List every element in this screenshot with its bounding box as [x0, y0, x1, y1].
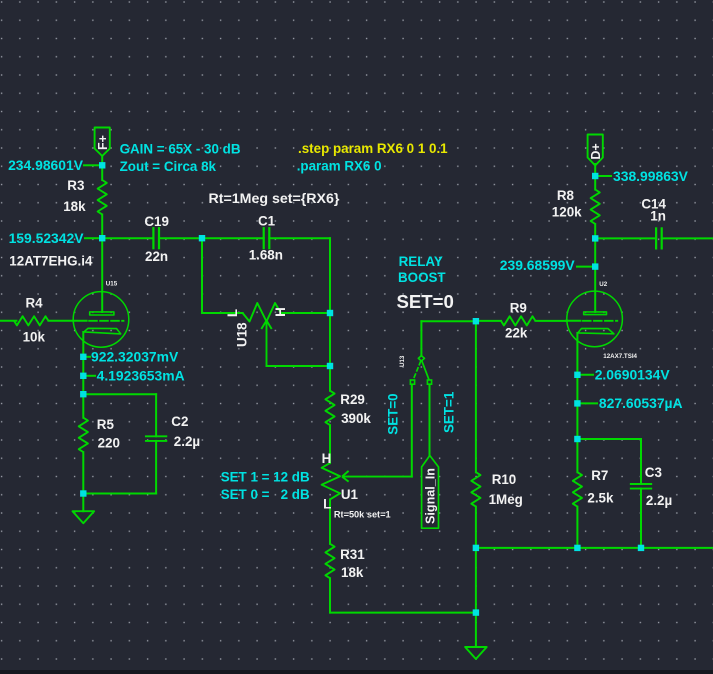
svg-text:SET=0: SET=0 — [386, 393, 401, 434]
svg-text:2.2µ: 2.2µ — [646, 493, 672, 508]
wire down to 239V node — [594, 238, 596, 266]
label 234.98601V — [8, 157, 98, 173]
svg-text:1.68n: 1.68n — [249, 248, 283, 263]
label 2.0690134V — [577, 367, 670, 383]
flag D+ — [588, 135, 603, 166]
node ground right — [473, 609, 479, 615]
svg-text:U18: U18 — [235, 322, 250, 347]
potentiometer U18 — [225, 303, 330, 366]
wire wiper up to switch — [411, 385, 413, 477]
svg-text:390k: 390k — [341, 411, 371, 426]
wire to ground right — [475, 613, 477, 647]
node 827uA — [574, 400, 580, 406]
node rail R7 — [574, 545, 580, 551]
svg-text:2.5k: 2.5k — [587, 491, 614, 506]
node 2.069V — [574, 372, 580, 378]
node R5-C2 branch — [80, 391, 86, 397]
svg-text:R29: R29 — [340, 392, 365, 407]
text SET 0 = 2 dB — [221, 487, 310, 502]
svg-text:Rt=50k set=1: Rt=50k set=1 — [334, 510, 391, 520]
capacitor C14 — [641, 197, 666, 249]
svg-text:R9: R9 — [510, 301, 527, 316]
wire R3 bottom — [101, 215, 103, 239]
svg-text:R4: R4 — [26, 296, 44, 311]
wire node to C19 — [102, 237, 153, 239]
svg-text:R3: R3 — [67, 178, 84, 193]
ground left — [73, 511, 95, 523]
svg-text:SET=1: SET=1 — [442, 391, 457, 433]
label 827.60537uA — [577, 395, 682, 411]
svg-text:F+: F+ — [96, 135, 110, 150]
svg-text:120k: 120k — [552, 205, 582, 220]
wire to R7 branch — [576, 403, 578, 439]
svg-text:.param RX6 0: .param RX6 0 — [297, 158, 382, 173]
svg-text:10k: 10k — [23, 330, 46, 345]
node rail R10 — [473, 545, 479, 551]
svg-text:827.60537µA: 827.60537µA — [599, 395, 683, 411]
svg-text:C3: C3 — [645, 465, 662, 480]
potentiometer U1 — [322, 451, 412, 544]
svg-text:U13: U13 — [399, 355, 406, 367]
svg-text:12AX7.TSI4: 12AX7.TSI4 — [603, 353, 637, 360]
wire C2 bottom to node — [83, 493, 156, 495]
svg-text:1Meg: 1Meg — [489, 492, 523, 507]
svg-text:U2: U2 — [599, 281, 607, 288]
text SET=0 rotated — [386, 393, 401, 434]
resistor R5 — [79, 394, 120, 493]
wire node down to U18 L — [202, 238, 243, 313]
text SET=1 rotated — [442, 391, 457, 433]
ground right — [465, 647, 487, 659]
wire R31 bottom — [330, 578, 476, 612]
svg-text:H: H — [273, 307, 288, 317]
resistor R9 — [476, 301, 567, 341]
resistor R3 — [63, 178, 107, 214]
wire cathode U2 — [576, 333, 578, 375]
resistor R31 — [325, 544, 365, 580]
wire R8 top — [594, 176, 596, 190]
wire bottom rail — [476, 547, 713, 549]
svg-text:BOOST: BOOST — [398, 270, 446, 285]
svg-text:H: H — [322, 451, 332, 466]
svg-text:22n: 22n — [145, 249, 168, 264]
svg-text:159.52342V: 159.52342V — [9, 230, 85, 246]
text GAIN — [120, 142, 241, 157]
flag Signal_In — [422, 456, 439, 529]
svg-text:R31: R31 — [340, 547, 365, 562]
directive .param — [297, 158, 382, 173]
svg-text:RELAY: RELAY — [399, 254, 443, 269]
svg-text:R5: R5 — [97, 417, 115, 432]
wire node to C14 — [595, 237, 656, 239]
wire branch to C2 top — [83, 394, 156, 436]
svg-text:338.99863V: 338.99863V — [613, 168, 689, 184]
svg-text:SET 1 = 12 dB: SET 1 = 12 dB — [221, 470, 310, 485]
text SET 1 = 12 dB — [221, 470, 310, 485]
flag F+ — [95, 128, 110, 157]
wire plate U15 — [101, 238, 103, 312]
wire cathode segment 2 — [576, 375, 578, 404]
svg-text:L: L — [225, 309, 240, 317]
wire down to R29 — [329, 366, 331, 391]
label 338.99863V — [595, 168, 688, 184]
svg-text:U1: U1 — [341, 487, 359, 502]
capacitor C1 — [249, 214, 283, 263]
text Rt=1Meg — [209, 191, 340, 207]
resistor R29 — [325, 391, 371, 426]
text SET=0 big — [397, 291, 454, 312]
wire switch to Signal_In — [429, 384, 431, 455]
wire C1 to corner — [269, 237, 330, 239]
svg-text:922.32037mV: 922.32037mV — [91, 349, 179, 365]
text RELAY — [399, 254, 443, 269]
wire R10 top — [475, 321, 477, 472]
resistor R10 — [471, 472, 523, 507]
directive .step — [298, 141, 448, 156]
wire pot H down — [329, 313, 331, 366]
wire R29 to U1 — [329, 425, 331, 463]
svg-text:.step param RX6 0 1 0.1: .step param RX6 0 1 0.1 — [298, 141, 448, 156]
svg-text:1n: 1n — [650, 209, 666, 224]
label 159.52342V — [9, 230, 98, 246]
wire corner down to pot H — [329, 238, 331, 313]
node 239V — [592, 263, 598, 269]
label 239.68599V — [500, 257, 593, 273]
svg-text:SET=0: SET=0 — [397, 291, 454, 312]
svg-text:GAIN = 65X - 30 dB: GAIN = 65X - 30 dB — [120, 142, 241, 157]
wire switch top rail — [421, 320, 476, 322]
svg-text:234.98601V: 234.98601V — [8, 157, 84, 173]
wire C19 to node — [159, 237, 202, 239]
node R7-C3 branch — [574, 436, 580, 442]
svg-text:U15: U15 — [106, 281, 118, 288]
wire R10 bottom — [475, 507, 477, 548]
node U18 wiper — [327, 363, 333, 369]
svg-text:22k: 22k — [505, 325, 528, 340]
wire R3 top — [101, 165, 103, 180]
svg-text:D+: D+ — [589, 143, 603, 159]
svg-text:239.68599V: 239.68599V — [500, 257, 576, 273]
wire cathode U15 — [82, 332, 84, 357]
node ground left — [80, 490, 86, 496]
svg-text:4.1923653mA: 4.1923653mA — [97, 368, 185, 384]
wire node to C1 — [202, 237, 264, 239]
svg-text:C2: C2 — [171, 414, 188, 429]
resistor R4 — [0, 296, 87, 345]
wire cathode segment — [82, 357, 84, 376]
svg-text:Rt=1Meg set={RX6}: Rt=1Meg set={RX6} — [209, 191, 340, 207]
text BOOST — [398, 270, 446, 285]
capacitor C3 — [631, 465, 672, 548]
svg-text:Zout = Circa 8k: Zout = Circa 8k — [120, 159, 217, 174]
wire C14 right — [662, 237, 713, 239]
switch U13 — [399, 321, 432, 384]
node 234V — [99, 162, 105, 168]
wire F+ to node — [101, 157, 103, 165]
wire R8 bottom — [594, 224, 596, 238]
svg-text:220: 220 — [98, 436, 120, 451]
wire R9 to U2 grid — [566, 320, 580, 322]
wire plate U2 — [594, 267, 596, 312]
node U18 H — [327, 310, 333, 316]
svg-text:L: L — [323, 497, 331, 512]
wire to R5 branch — [82, 376, 84, 394]
svg-text:SET 0 = 2 dB: SET 0 = 2 dB — [221, 487, 310, 502]
svg-text:2.0690134V: 2.0690134V — [595, 367, 671, 383]
svg-text:Signal_In: Signal_In — [424, 468, 438, 524]
svg-text:18k: 18k — [63, 199, 86, 214]
wire D+ to node — [594, 164, 596, 176]
resistor R7 — [573, 439, 614, 548]
node R8-C14 — [592, 235, 598, 241]
svg-text:R8: R8 — [557, 188, 575, 203]
node 338V — [592, 173, 598, 179]
capacitor C19 — [144, 214, 169, 264]
svg-text:C19: C19 — [144, 214, 169, 229]
resistor R8 — [552, 188, 600, 224]
svg-text:R7: R7 — [591, 468, 608, 483]
svg-text:12AT7EHG.i4: 12AT7EHG.i4 — [9, 254, 93, 269]
label 922.32037mV — [83, 349, 179, 365]
svg-text:C1: C1 — [258, 214, 276, 229]
svg-text:R10: R10 — [492, 472, 517, 487]
svg-text:2.2µ: 2.2µ — [174, 434, 200, 449]
node 922mV — [80, 354, 86, 360]
node 159V — [99, 235, 105, 241]
node 4.19mA — [80, 373, 86, 379]
wire branch to C3 — [577, 439, 641, 484]
triode U15 — [73, 281, 129, 348]
label 4.1923653mA — [83, 368, 184, 384]
svg-text:18k: 18k — [341, 565, 364, 580]
triode U2 — [567, 281, 638, 360]
node rail C3 — [638, 545, 644, 551]
bottom dark strip — [0, 670, 713, 674]
capacitor C2 — [146, 414, 200, 494]
node C19-C1 — [199, 235, 205, 241]
node R9-R10 — [473, 318, 479, 324]
text Zout — [120, 159, 217, 174]
wire rail to ground node — [475, 548, 477, 613]
wire to ground left — [82, 494, 84, 512]
label 12AT7EHG.i4 — [9, 254, 93, 269]
